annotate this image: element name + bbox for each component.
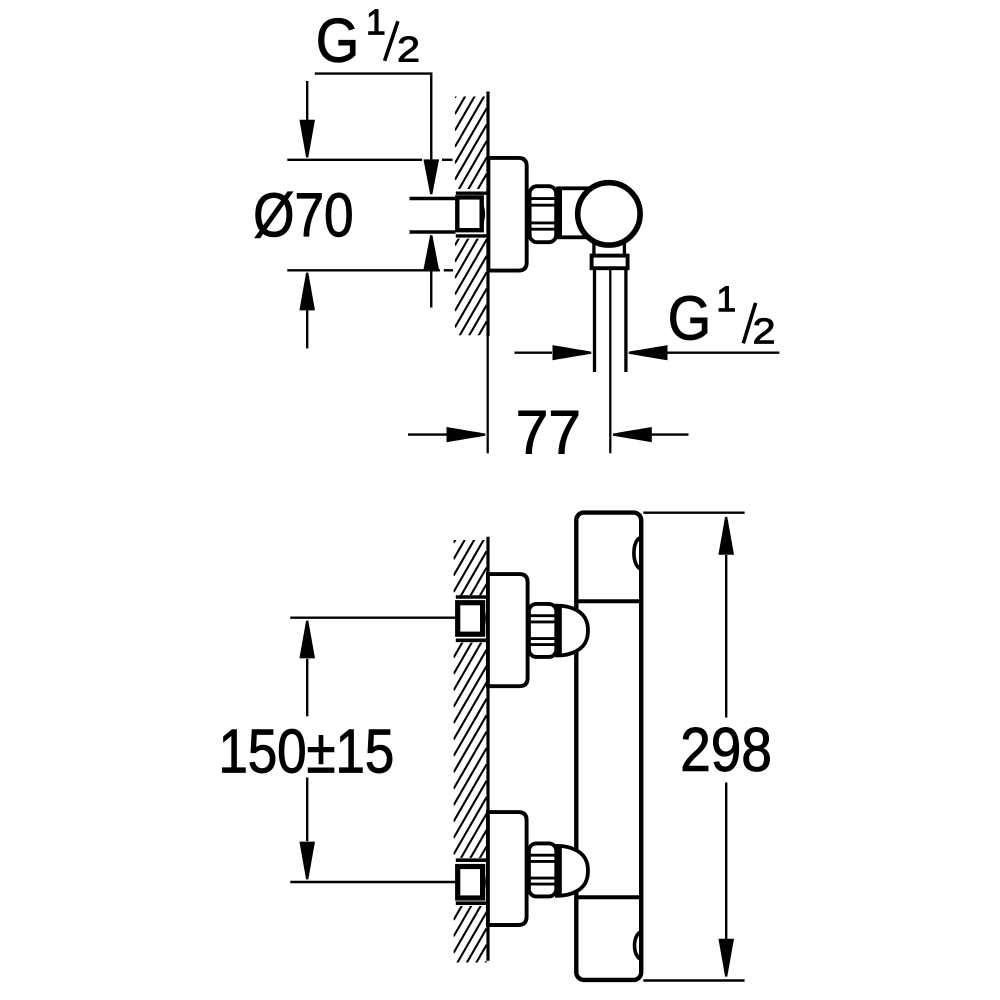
body shoulder line upper bbox=[578, 599, 642, 603]
valve ball housing circle (top view) bbox=[578, 183, 640, 245]
dimension G1/2 top: upper arrow (down) bbox=[423, 159, 439, 194]
escutcheon flange (top view) bbox=[488, 158, 526, 271]
hose collar below valve (top view) bbox=[592, 256, 628, 269]
dimension G1/2 top: leader polyline bbox=[315, 74, 431, 160]
wall hatch middle section (bottom view) bbox=[454, 551, 487, 936]
lower union nut (bottom view) bbox=[529, 843, 556, 896]
label G1/2 side: G bbox=[671, 296, 708, 340]
label G1/2 side: fraction slash bbox=[743, 303, 755, 344]
upper escutcheon (bottom view) bbox=[488, 574, 528, 686]
upper square coupling in wall (bottom view) bbox=[458, 603, 485, 635]
dimension Ø70: lower extension line bbox=[287, 269, 453, 271]
union nut (top view) bbox=[530, 186, 557, 242]
dimension Ø70: upper arrow (down) + stem bbox=[299, 81, 315, 158]
label G1/2 top: numerator 1 bbox=[369, 10, 385, 35]
side port ellipse lower (bottom view) bbox=[635, 932, 642, 960]
wall face line (bottom view) bbox=[486, 537, 489, 961]
shower hose pipe, right edge (top view) bbox=[624, 268, 627, 372]
dimension G1/2 side: right line + left arrow bbox=[629, 345, 780, 360]
stub line above lower square (bottom view) bbox=[456, 858, 488, 862]
neck below valve ball, left edge (top view) bbox=[592, 240, 595, 257]
label G1/2 top: G bbox=[319, 18, 356, 62]
label G1/2 side: denominator 2 bbox=[755, 318, 774, 343]
dimension Ø70: upper extension line bbox=[287, 159, 452, 161]
body shoulder line lower bbox=[578, 895, 642, 899]
connector block between nut and valve ball (top view) bbox=[558, 188, 589, 237]
label 298 bbox=[683, 728, 770, 772]
supply pipe into wall, top edge (top view) bbox=[410, 197, 456, 200]
divider bar between lower nut and dome (bottom view) bbox=[556, 845, 562, 898]
dimension 150±15: upper dimension line bbox=[290, 617, 455, 619]
stub line below upper square (bottom view) bbox=[456, 638, 488, 642]
dimension 298: lower arrow (down) + stem bbox=[718, 783, 734, 977]
dimension G1/2 side: left line + right arrow bbox=[515, 345, 592, 360]
dimension G1/2 top: lower arrow (up) + stem bbox=[423, 235, 439, 307]
wall hatch upper section (top view) bbox=[455, 0, 487, 262]
divider bar between upper nut and dome (bottom view) bbox=[556, 604, 562, 657]
dimension 298: lower extension line bbox=[643, 979, 744, 981]
wall connection stub line above square (top view) bbox=[456, 191, 487, 194]
wall connection stub line below square (top view) bbox=[456, 234, 487, 237]
stub line below lower square (bottom view) bbox=[456, 901, 488, 905]
label G1/2 top: fraction slash bbox=[385, 21, 398, 61]
divider bar between nut and valve body (top view) bbox=[556, 189, 562, 237]
label 77 bbox=[519, 411, 578, 454]
lower square coupling in wall (bottom view) bbox=[458, 867, 485, 899]
side port ellipse upper (bottom view) bbox=[634, 538, 641, 569]
shower hose pipe, left edge (top view) bbox=[593, 268, 596, 372]
lower escutcheon (bottom view) bbox=[488, 812, 527, 925]
label 150±15 bbox=[223, 729, 393, 773]
dimension 77: left line + right arrow bbox=[408, 427, 485, 442]
wall face line (top view) bbox=[486, 92, 489, 337]
dimension Ø70: lower arrow (up) + stem bbox=[299, 273, 315, 349]
label G1/2 top: denominator 2 bbox=[399, 37, 418, 62]
upper union nut (bottom view) bbox=[529, 604, 556, 657]
neck below valve ball, right edge (top view) bbox=[623, 240, 626, 257]
wall extension line for 77 dimension bbox=[487, 336, 489, 453]
dimension 150±15: lower arrow (down) + stem bbox=[299, 778, 315, 880]
stub line above upper square (bottom view) bbox=[456, 595, 488, 599]
dimension 77: right arrow + line bbox=[613, 427, 689, 442]
label G1/2 side: numerator 1 bbox=[719, 287, 735, 312]
dimension 150±15: upper arrow (up) + stem bbox=[299, 621, 315, 717]
wall hatch lower section (top view) bbox=[455, 141, 487, 409]
square pipe coupling in wall (top view) bbox=[457, 197, 483, 230]
label Ø70 bbox=[255, 192, 352, 238]
wall hatch upper section (bottom view) bbox=[454, 436, 487, 674]
lower union dome (bottom view) bbox=[557, 846, 588, 896]
supply pipe into wall, bottom edge (top view) bbox=[410, 230, 456, 233]
dimension 298: upper extension line bbox=[643, 512, 744, 514]
upper union dome (bottom view) bbox=[557, 606, 588, 656]
thermostat body bar (bottom view) bbox=[576, 513, 641, 980]
dimension 298: upper arrow (up) + stem bbox=[718, 517, 734, 718]
wall hatch lower section (bottom view) bbox=[454, 814, 487, 1000]
dimension 150±15: lower dimension line bbox=[290, 881, 455, 883]
pipe centre extension line (top view) bbox=[609, 269, 611, 454]
